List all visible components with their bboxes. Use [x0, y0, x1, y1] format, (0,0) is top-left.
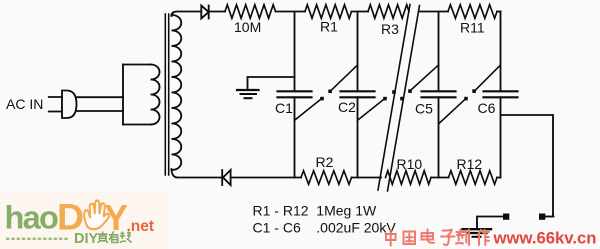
capacitor C1: [278, 91, 312, 97]
spark gap G2 dot 2: [408, 89, 412, 93]
wire C1 bottom to rail: [294, 97, 296, 177]
svg-text:R11: R11: [460, 20, 485, 36]
spark gap G3 electrode from C5: [440, 100, 465, 123]
wire node A down to C1: [294, 12, 296, 92]
wire primary bottom lead: [123, 124, 151, 126]
wire left output electrode: [477, 217, 503, 229]
resistor R12: [449, 171, 498, 185]
spark gap G2 electrode from C2: [359, 100, 384, 120]
logo char 真: [98, 232, 109, 243]
wire primary top lead: [123, 64, 151, 66]
svg-text:hao: hao: [5, 200, 59, 236]
svg-text:R3: R3: [381, 21, 399, 37]
spark gap G2 dot 1: [383, 97, 387, 101]
haoDIY logo: [5, 196, 155, 248]
char 子: [441, 230, 455, 245]
capacitor C6: [484, 91, 518, 97]
wire R11 to node E: [497, 11, 501, 13]
wire primary bracket: [122, 65, 124, 125]
output gap left electrode dot: [503, 214, 509, 220]
wire D2 to R2: [231, 177, 301, 179]
spark gap G3 dot 2: [472, 89, 476, 93]
spark gap G2 dot mid-left: [392, 90, 396, 94]
spark gap G3 dot 1: [464, 97, 468, 101]
AC plug body: [62, 91, 77, 119]
wire node B down to C2: [357, 12, 359, 92]
spark gap G1 electrode to C2: [332, 65, 358, 90]
char 中: [386, 230, 397, 246]
diode D2 (bottom): [222, 170, 230, 185]
logo char 趣: [120, 232, 132, 243]
logo dashed line: [6, 238, 69, 240]
resistor R3: [368, 5, 409, 19]
break line left: [378, 5, 410, 191]
wire secondary bottom lead: [172, 169, 222, 178]
svg-text:R1: R1: [320, 19, 338, 35]
svg-text:C2: C2: [338, 99, 356, 115]
wire R1 to node B: [352, 11, 369, 13]
capacitor C5: [422, 91, 456, 97]
logo char 有: [109, 231, 119, 242]
spark gap G2 dot mid-right: [400, 97, 404, 101]
wire C2 bottom to rail: [357, 97, 359, 177]
ground (near C1 top wire): [248, 77, 295, 89]
resistor R11: [448, 5, 497, 19]
wire R2 to break: [352, 177, 382, 179]
wire R10 to R12: [431, 177, 449, 179]
AC plug prongs: [49, 97, 62, 112]
wire node D down to C5: [438, 12, 440, 92]
resistor R1: [305, 5, 352, 19]
svg-text:C6: C6: [478, 100, 496, 116]
break line right: [388, 6, 420, 192]
diode D1 (top): [201, 6, 208, 19]
ground (output, bottom right): [463, 228, 492, 230]
wire C5 bottom to rail: [438, 97, 440, 177]
resistor 10M: [225, 5, 276, 19]
wire right output electrode stub: [545, 216, 554, 218]
svg-text:Y: Y: [104, 197, 128, 238]
svg-text:R1 - R12 1Meg 1W: R1 - R12 1Meg 1W: [253, 203, 377, 219]
char 电: [422, 230, 435, 243]
transformer T1 secondary winding: [172, 15, 182, 170]
wire 10M to node A: [276, 11, 306, 13]
spark gap G2 electrode to C5: [412, 65, 439, 90]
logo hand: [84, 201, 109, 230]
wire R12 to C6 wire: [497, 177, 501, 179]
char 国: [404, 232, 416, 245]
char 制: [456, 230, 469, 246]
wire cable to transformer: [76, 97, 123, 111]
svg-text:R12: R12: [457, 156, 483, 172]
spark gap G1 dot 2: [328, 90, 332, 94]
wire C6 bottom to rail: [500, 97, 502, 177]
logo background tint: [0, 192, 168, 249]
resistor R2: [301, 171, 352, 185]
wire C6 output branch: [501, 115, 554, 215]
spark gap G1 dot 1: [320, 97, 324, 101]
svg-text:DIY: DIY: [74, 231, 99, 247]
output gap right electrode dot: [539, 214, 545, 220]
watermark 中国电子制作 (red): [386, 230, 490, 246]
spark gap G3 electrode to C6: [476, 65, 501, 90]
spark gap G1 electrode from C1: [296, 100, 321, 120]
transformer core: [165, 14, 168, 175]
svg-text:C1: C1: [275, 100, 293, 116]
svg-text:AC IN: AC IN: [6, 96, 43, 112]
wire node E down to C6: [500, 12, 502, 92]
svg-text:R2: R2: [316, 154, 334, 170]
capacitor C2: [341, 91, 375, 97]
wire top rail after break: [420, 11, 449, 13]
wire secondary top lead to diode: [172, 12, 202, 17]
svg-text:R10: R10: [397, 156, 423, 172]
svg-text:10M: 10M: [234, 19, 261, 35]
resistor R10: [386, 171, 432, 185]
char 作: [478, 230, 489, 245]
wire diode to 10M: [210, 11, 225, 13]
transformer T1 primary winding: [151, 65, 160, 125]
svg-text:C5: C5: [415, 101, 433, 117]
svg-text:www.66kv.cn: www.66kv.cn: [493, 229, 597, 248]
svg-text:C1 - C6 .002uF 20kV: C1 - C6 .002uF 20kV: [253, 220, 397, 236]
